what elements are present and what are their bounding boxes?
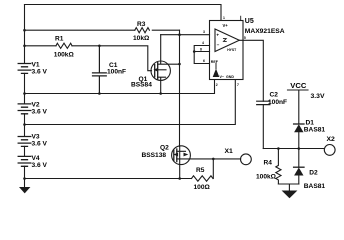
svg-text:3: 3: [203, 30, 205, 34]
battery V2: [18, 104, 31, 114]
svg-text:V1: V1: [32, 61, 40, 68]
svg-text:HYST: HYST: [227, 48, 237, 52]
svg-text:3.6 V: 3.6 V: [32, 140, 48, 147]
svg-text:100nF: 100nF: [107, 68, 126, 75]
wire bottom rail battery- to R5: [25, 178, 192, 180]
transistor Q2 BSS138: [172, 146, 191, 179]
resistor R4: [276, 149, 281, 185]
wire Q2 source to X1: [190, 158, 240, 160]
svg-text:3.6 V: 3.6 V: [32, 162, 48, 169]
svg-text:R5: R5: [196, 167, 205, 174]
battery V4: [18, 156, 31, 166]
wire U5 output to C2: [239, 40, 263, 101]
node dot tap1 at battery: [23, 92, 26, 95]
svg-text:2: 2: [216, 83, 218, 87]
node dot plus-node crossing line B: [178, 33, 181, 36]
power VCC 3.3V: [288, 90, 309, 124]
reference symbol triangle: [215, 64, 217, 69]
node dot R1 branch at battery: [23, 45, 26, 48]
wire R5 to X1 node: [212, 159, 214, 179]
svg-text:R3: R3: [137, 21, 146, 28]
node dot HYST tie: [193, 50, 196, 53]
node dot C1 top junction: [98, 45, 101, 48]
wire R1 to Q1 gate: [72, 46, 152, 71]
ground (battery): [19, 187, 30, 193]
node dot tap2 at battery: [23, 123, 26, 126]
svg-text:5: 5: [244, 36, 246, 40]
connector X2: [324, 145, 335, 156]
wire R3 to plus-node vertical: [152, 29, 179, 31]
capacitor C2: [257, 101, 270, 148]
wire battery ground stub: [24, 179, 26, 188]
svg-text:D1: D1: [306, 119, 315, 126]
node dot R3 branch at battery: [23, 29, 26, 32]
svg-text:7: 7: [237, 83, 239, 87]
svg-text:Q2: Q2: [160, 145, 169, 152]
diode D2 BAS81: [294, 149, 304, 185]
battery V3: [18, 137, 31, 147]
wire R4/D2 to ground: [278, 184, 298, 191]
wire R1 branch from battery+: [25, 45, 57, 47]
svg-text:V− GND: V− GND: [220, 75, 235, 79]
node dot Q1 drain stub to plus-node: [178, 63, 181, 66]
svg-text:X2: X2: [327, 136, 336, 143]
svg-text:R4: R4: [264, 159, 273, 166]
node dot battery bottom: [23, 177, 26, 180]
node dot Q2 source at bottom rail: [178, 177, 181, 180]
svg-text:3.6 V: 3.6 V: [32, 108, 48, 115]
transistor Q1 BSS84: [151, 35, 180, 94]
wire top rail from battery+ to U5 V+ pin: [25, 5, 222, 21]
wire Q1 top to op-amp IN+ (line B): [161, 34, 210, 36]
svg-text:V+: V+: [223, 23, 229, 28]
op-amp U5 MAX921ESA box: [210, 21, 244, 80]
wire R3 branch from battery+: [25, 29, 135, 31]
svg-text:MAX921ESA: MAX921ESA: [245, 28, 285, 35]
svg-text:BAS81: BAS81: [304, 183, 326, 190]
svg-text:6: 6: [203, 59, 205, 63]
svg-text:100nF: 100nF: [268, 99, 287, 106]
op-amp triangle: [215, 29, 239, 52]
svg-text:100Ω: 100Ω: [194, 184, 211, 191]
svg-text:BSS84: BSS84: [131, 81, 152, 88]
resistor R5: [192, 176, 213, 181]
connector X1: [241, 154, 252, 165]
svg-text:X1: X1: [225, 148, 234, 155]
svg-text:3.6 V: 3.6 V: [32, 69, 48, 76]
svg-text:100kΩ: 100kΩ: [256, 174, 277, 181]
wire IN- / HYST / REF tie loop: [194, 46, 209, 64]
svg-text:+: +: [216, 32, 219, 37]
wire tap2 (V2/V3 junction) to U5 GND pin: [25, 80, 236, 125]
svg-text:3.3V: 3.3V: [311, 93, 325, 100]
svg-text:BSS138: BSS138: [142, 152, 167, 159]
wire tap1 (V1/V2 junction) to U5 V- pin: [25, 80, 215, 94]
capacitor C1: [93, 46, 107, 94]
node dot R4 top: [277, 147, 280, 150]
hysteresis Z symbol: [223, 39, 226, 42]
svg-text:U5: U5: [245, 18, 254, 25]
resistor R1: [56, 43, 72, 48]
resistor R3: [135, 28, 150, 33]
node dot C1 bottom junction: [98, 92, 101, 95]
svg-text:−: −: [217, 43, 220, 48]
svg-text:REF: REF: [211, 60, 219, 64]
node dot Q1 source junction: [159, 92, 162, 95]
wire battery stack vertical segments: [24, 5, 26, 179]
svg-text:BAS81: BAS81: [304, 127, 326, 134]
svg-text:V4: V4: [32, 155, 40, 162]
wire X2 node horizontal: [263, 148, 324, 150]
svg-text:R1: R1: [55, 35, 64, 42]
wire plus node vertical (R3/Q1/Q2 drain): [179, 30, 181, 146]
svg-text:8: 8: [200, 47, 202, 51]
node dot diode column: [298, 147, 301, 150]
battery V1: [18, 64, 31, 74]
node dot R5 tap on X1 wire: [212, 158, 215, 161]
svg-text:1: 1: [223, 16, 225, 20]
svg-text:VCC: VCC: [290, 81, 307, 90]
diode D1 BAS81: [294, 124, 304, 149]
ground (right): [282, 191, 298, 199]
U5 leader line: [240, 16, 242, 20]
svg-text:100kΩ: 100kΩ: [54, 51, 75, 58]
svg-text:4: 4: [202, 41, 204, 45]
svg-text:D2: D2: [309, 169, 318, 176]
svg-text:10kΩ: 10kΩ: [133, 35, 150, 42]
svg-text:C2: C2: [270, 92, 279, 99]
